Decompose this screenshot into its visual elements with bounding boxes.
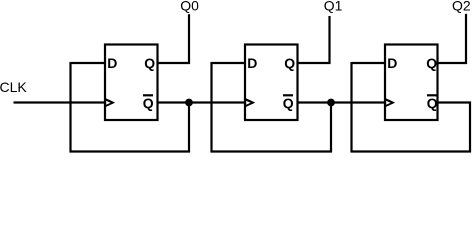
U2 pin label Qbar (283, 95, 294, 111)
wire U1 feedback left vertical (69, 62, 71, 153)
svg-text:Q: Q (426, 55, 437, 71)
wire U3 Q output to Q2 riser (438, 62, 468, 64)
wire U2 Qbar to U3 clock (298, 101, 386, 103)
svg-text:D: D (387, 55, 397, 71)
U1 clock input chevron (105, 98, 115, 108)
wire CLK input to U1 clock pin (14, 101, 106, 103)
svg-text:Q1: Q1 (324, 0, 343, 13)
wire U1 Q output to Q0 riser (158, 62, 191, 64)
U3 clock input chevron (385, 98, 395, 108)
wire U1 Qbar junction drop (188, 103, 190, 153)
wire U2 D input from feedback (212, 62, 246, 64)
svg-text:Q0: Q0 (180, 0, 199, 13)
wire U2 Q output to Q1 riser (298, 62, 331, 64)
wire U3 D input from feedback (352, 62, 386, 64)
svg-text:Q: Q (427, 95, 438, 111)
wire U3 Qbar output run (438, 101, 472, 103)
wire U2 feedback left vertical (210, 62, 212, 153)
junction U1 Qbar feedback tap (185, 99, 193, 107)
svg-text:D: D (247, 55, 257, 71)
D flip-flop U1 body (105, 45, 158, 121)
svg-text:Q: Q (283, 95, 294, 111)
U3 pin label Qbar (427, 95, 438, 111)
D flip-flop U2 body (245, 45, 298, 121)
wire U1 Qbar to U2 clock (158, 101, 246, 103)
wire U3 feedback left vertical (350, 62, 352, 153)
wire U3 feedback bottom run (351, 150, 472, 152)
wire U1 feedback bottom run (70, 150, 191, 152)
wire Q2 riser (465, 14, 467, 64)
wire U1 D input from feedback (71, 62, 106, 64)
wire Q0 riser (188, 14, 190, 64)
wire U2 feedback bottom run (211, 150, 333, 152)
svg-text:Q: Q (284, 55, 295, 71)
svg-text:Q: Q (143, 95, 154, 111)
junction U2 Qbar feedback tap (327, 99, 335, 107)
wire Q1 riser (328, 16, 330, 64)
svg-text:CLK: CLK (0, 79, 27, 95)
svg-text:D: D (107, 55, 117, 71)
U1 pin label Qbar (143, 95, 154, 111)
wire U3 Qbar feedback drop (469, 102, 471, 153)
wire U2 Qbar junction drop (330, 103, 332, 153)
svg-text:Q2: Q2 (452, 0, 471, 13)
U2 clock input chevron (245, 98, 255, 108)
svg-text:Q: Q (144, 55, 155, 71)
D flip-flop U3 body (385, 45, 438, 121)
